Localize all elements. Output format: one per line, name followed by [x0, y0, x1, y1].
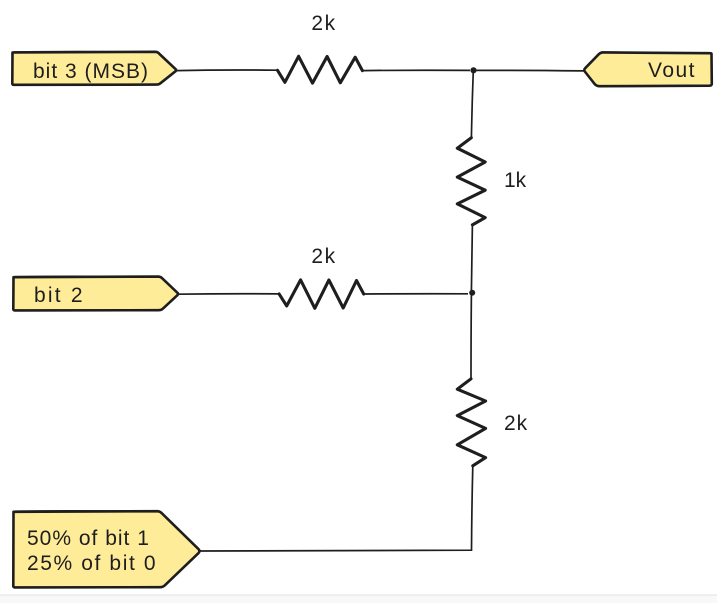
node B junction — [469, 290, 475, 296]
wire R3 to node B — [364, 293, 468, 295]
wire node A to Vout — [474, 69, 585, 72]
svg-text:50% of bit 1: 50% of bit 1 — [27, 527, 150, 550]
wire R4 down and left to flag — [200, 466, 473, 551]
flag bit 2 — [13, 276, 178, 310]
svg-text:bit 2: bit 2 — [34, 284, 85, 307]
wire bit2 to R3 — [179, 293, 281, 295]
resistor R3 2k — [279, 245, 364, 308]
wire R1 to node A — [362, 69, 470, 71]
footer strip — [0, 595, 717, 603]
svg-text:1k: 1k — [504, 169, 527, 192]
svg-text:2k: 2k — [311, 245, 336, 268]
node A junction — [470, 67, 476, 73]
svg-text:Vout: Vout — [648, 59, 696, 82]
flag bit 3 (MSB) — [12, 51, 176, 84]
flag 50% of bit 1 / 25% of bit 0 — [13, 511, 199, 588]
svg-text:2k: 2k — [504, 412, 528, 435]
resistor R1 2k — [278, 12, 363, 83]
wire bit3 to R1 — [177, 69, 279, 72]
wire node B down to R4 — [470, 294, 472, 379]
svg-text:25% of bit 0: 25% of bit 0 — [27, 552, 157, 575]
flag Vout — [584, 52, 712, 86]
wire node A down to R2 — [471, 70, 473, 138]
resistor R4 2k — [457, 379, 528, 466]
resistor R2 1k — [457, 138, 526, 225]
svg-text:bit 3 (MSB): bit 3 (MSB) — [33, 60, 149, 83]
svg-text:2k: 2k — [311, 12, 336, 35]
wire R2 to node B — [471, 225, 472, 291]
